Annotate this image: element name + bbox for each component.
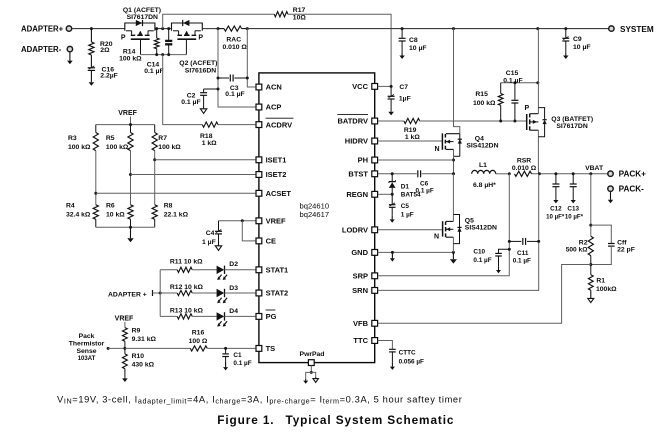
svg-text:P: P — [121, 34, 126, 41]
wire Q1-Q2 common source segment — [155, 28, 172, 30]
svg-text:SI7617DN: SI7617DN — [556, 123, 587, 130]
svg-text:R3: R3 — [68, 135, 77, 142]
resistor R11 — [160, 269, 177, 271]
pin ACN — [256, 84, 262, 90]
svg-text:TS: TS — [266, 344, 276, 353]
pin CE — [256, 238, 262, 244]
svg-text:PACK-: PACK- — [619, 185, 645, 194]
wire REGN — [378, 193, 393, 195]
wire ACN sense column — [247, 29, 255, 87]
pin VFB — [372, 320, 378, 326]
resistor R17 — [274, 12, 288, 17]
svg-text:100kΩ: 100kΩ — [596, 286, 617, 293]
svg-text:SRN: SRN — [352, 286, 368, 295]
capacitor C16 — [90, 55, 92, 67]
svg-text:C7: C7 — [399, 84, 408, 91]
svg-text:bq24610: bq24610 — [300, 201, 330, 210]
capacitor C14 — [168, 29, 170, 40]
ground below C1 — [225, 362, 227, 367]
svg-text:R9: R9 — [132, 327, 141, 334]
wire Q3 drain to PACK+ rail — [537, 130, 539, 174]
capacitor C3 — [218, 77, 229, 79]
wire VFB — [378, 265, 591, 324]
pin LODRV — [372, 227, 378, 233]
wire R15/C15 top rail — [501, 82, 538, 84]
LED D2 — [217, 266, 225, 274]
svg-text:0.010 Ω: 0.010 Ω — [512, 165, 537, 172]
capacitor C1 — [224, 347, 227, 350]
svg-text:R12 10 kΩ: R12 10 kΩ — [170, 284, 204, 291]
svg-text:SIS412DN: SIS412DN — [466, 143, 498, 150]
ground below C2 — [203, 107, 205, 109]
ground PwrPad left (signal) — [306, 372, 312, 378]
svg-text:Q2 (ACFET): Q2 (ACFET) — [179, 60, 217, 67]
svg-text:103AT: 103AT — [78, 356, 96, 362]
wire ISET2 — [130, 151, 132, 205]
svg-text:D2: D2 — [229, 261, 238, 268]
pin PG — [256, 314, 262, 320]
svg-text:Q4: Q4 — [475, 136, 484, 143]
svg-text:ISET2: ISET2 — [266, 170, 287, 179]
wire SRN — [378, 174, 539, 291]
pin STAT2 — [256, 290, 262, 296]
ground below C5 — [391, 216, 393, 220]
ground at Q5 source — [452, 252, 454, 259]
resistor R12 — [160, 292, 177, 294]
capacitor Cff — [591, 225, 612, 243]
capacitor C15 — [514, 83, 516, 100]
pin PH — [372, 157, 378, 163]
wire Q4 drain jog from system rail — [454, 29, 460, 134]
wire VCC to C7 — [378, 85, 392, 87]
ground PwrPad right (power) — [311, 372, 315, 377]
svg-text:HIDRV: HIDRV — [345, 137, 368, 146]
svg-text:PACK+: PACK+ — [619, 170, 647, 179]
svg-text:VBAT: VBAT — [585, 165, 604, 172]
svg-text:P: P — [525, 105, 530, 112]
diode Q5 body diode — [453, 215, 459, 244]
svg-text:D4: D4 — [229, 308, 238, 315]
svg-text:LODRV: LODRV — [342, 226, 368, 235]
svg-text:D3: D3 — [229, 285, 238, 292]
capacitor C5 — [391, 194, 393, 204]
resistor R19 — [378, 120, 404, 122]
svg-text:R11 10 kΩ: R11 10 kΩ — [170, 259, 203, 266]
svg-text:32.4 kΩ: 32.4 kΩ — [66, 211, 91, 218]
svg-text:SI7617DN: SI7617DN — [127, 14, 158, 21]
svg-text:0.1 µF: 0.1 µF — [473, 257, 491, 264]
capacitor CTTC — [389, 348, 396, 350]
svg-text:SRP: SRP — [353, 272, 368, 281]
svg-text:C10: C10 — [473, 249, 485, 256]
resistor R1 — [590, 265, 592, 275]
svg-text:22.1 kΩ: 22.1 kΩ — [164, 211, 189, 218]
ground below divider — [130, 227, 132, 238]
ground below ADAPTER- — [69, 52, 71, 61]
resistor R15 — [500, 83, 502, 94]
svg-text:R10: R10 — [132, 353, 145, 360]
svg-text:ISET1: ISET1 — [266, 156, 287, 165]
ground below C4 — [218, 242, 220, 246]
svg-text:C12: C12 — [550, 206, 562, 213]
wire Q1/Q2 gate rail — [141, 54, 187, 56]
ground arrow below C8 — [401, 52, 403, 55]
pin TTC — [372, 338, 378, 344]
svg-text:BTST: BTST — [348, 170, 368, 179]
wire system rail RAC to SYSTEM terminal — [247, 28, 608, 30]
ground below C10 — [498, 267, 500, 270]
resistor R4 — [93, 205, 98, 220]
ground below C16 — [90, 81, 92, 84]
resistor RSR — [515, 171, 532, 176]
svg-text:ACN: ACN — [266, 83, 282, 92]
svg-text:R1: R1 — [596, 278, 605, 285]
svg-text:BAT54: BAT54 — [401, 192, 421, 199]
capacitor C10 — [499, 249, 510, 253]
capacitor C9 — [565, 29, 567, 38]
capacitor C6 — [417, 170, 419, 177]
resistor R8 — [152, 205, 157, 220]
svg-text:Figure 1. Typical System Sche: Figure 1. Typical System Schematic — [217, 413, 454, 427]
capacitor C8 — [401, 29, 403, 38]
svg-text:VFB: VFB — [353, 319, 369, 328]
svg-text:N: N — [435, 146, 440, 153]
svg-text:10 µF*: 10 µF* — [565, 213, 584, 220]
capacitor C13 — [572, 174, 574, 184]
terminal PACK+ — [608, 171, 613, 176]
svg-text:1 µF: 1 µF — [202, 239, 216, 246]
svg-text:C15: C15 — [506, 70, 519, 77]
svg-text:9.31 kΩ: 9.31 kΩ — [132, 336, 157, 343]
node RAC right — [246, 27, 249, 30]
svg-text:PH: PH — [358, 156, 368, 165]
svg-text:0.010 Ω: 0.010 Ω — [223, 44, 248, 51]
svg-text:Pack: Pack — [79, 333, 95, 340]
svg-text:Sense: Sense — [76, 348, 96, 355]
svg-text:VCC: VCC — [352, 82, 368, 91]
ground arrow below C9 — [565, 52, 567, 55]
svg-text:RSR: RSR — [517, 158, 531, 165]
svg-text:VREF: VREF — [118, 110, 137, 117]
pin VCC — [372, 84, 378, 90]
svg-text:VREF: VREF — [115, 316, 134, 323]
svg-text:SI7616DN: SI7616DN — [185, 68, 216, 75]
capacitor C11 — [509, 240, 521, 242]
svg-text:C13: C13 — [567, 206, 579, 213]
svg-text:ADAPTER+: ADAPTER+ — [21, 25, 64, 34]
pin BTST — [372, 171, 378, 177]
wire R17 to VCC — [288, 14, 391, 86]
svg-text:2Ω: 2Ω — [100, 47, 110, 54]
svg-text:R19: R19 — [404, 127, 417, 134]
svg-text:STAT2: STAT2 — [266, 289, 289, 298]
svg-text:bq24617: bq24617 — [300, 210, 330, 219]
wire LED bus — [159, 270, 161, 317]
svg-text:SYSTEM: SYSTEM — [620, 25, 654, 34]
wire Q3 source to system rail — [537, 29, 539, 114]
node R2/R1/VFB — [589, 263, 592, 266]
svg-text:STAT1: STAT1 — [266, 266, 289, 275]
svg-text:ADAPTER-: ADAPTER- — [21, 45, 62, 54]
svg-text:BATDRV: BATDRV — [337, 117, 368, 126]
svg-text:ACDRV: ACDRV — [266, 120, 293, 129]
ground below PACK- — [610, 192, 612, 200]
svg-text:R7: R7 — [158, 135, 167, 142]
ground below R1 — [590, 290, 592, 298]
svg-text:100 kΩ: 100 kΩ — [68, 144, 91, 151]
terminal SYSTEM — [609, 26, 614, 31]
pin ISET1 — [256, 157, 262, 163]
svg-text:RAC: RAC — [226, 37, 241, 44]
svg-text:Cff: Cff — [617, 239, 627, 246]
svg-text:N: N — [434, 234, 439, 241]
wire Q5 source to GND rail — [452, 237, 454, 252]
ground below C7 — [390, 110, 392, 112]
wire BATDRV to Q3 gate — [420, 120, 527, 122]
ground below R10 — [124, 377, 126, 378]
svg-text:ADAPTER +: ADAPTER + — [108, 292, 147, 299]
resistor R16 — [125, 347, 190, 349]
svg-text:ACSET: ACSET — [266, 189, 292, 198]
svg-text:R15: R15 — [475, 91, 488, 98]
wire LODRV to Q5 gate — [378, 229, 443, 231]
wire VREF divider top rail — [96, 124, 155, 126]
resistor R2 — [588, 236, 593, 255]
svg-text:R2: R2 — [579, 239, 588, 246]
wire PwrPad stub — [310, 366, 312, 373]
svg-text:PG: PG — [266, 312, 277, 321]
svg-text:0.1 µF: 0.1 µF — [503, 77, 522, 84]
svg-text:1 µF: 1 µF — [401, 212, 414, 219]
wire ISET1 — [154, 151, 156, 205]
resistor R10 — [123, 354, 128, 369]
wire to R17 — [163, 14, 275, 28]
transistor Q3 body/arrow — [530, 121, 538, 123]
svg-text:1 kΩ: 1 kΩ — [405, 134, 420, 141]
svg-text:0.1 µF: 0.1 µF — [233, 360, 251, 367]
pin ACDRV — [256, 122, 262, 128]
svg-text:VREF: VREF — [266, 217, 286, 226]
terminal PACK- — [608, 186, 613, 191]
resistor R3 — [95, 125, 97, 133]
resistor R13 — [160, 315, 177, 317]
svg-text:100 kΩ: 100 kΩ — [158, 144, 181, 151]
wire divider bottom rail — [96, 226, 155, 228]
svg-text:10 µF: 10 µF — [573, 44, 591, 51]
resistor R6 — [128, 205, 133, 220]
svg-text:R13 10 kΩ: R13 10 kΩ — [170, 308, 204, 315]
svg-text:CTTC: CTTC — [399, 350, 416, 357]
svg-text:0.1 µF: 0.1 µF — [181, 99, 200, 106]
resistor R20 — [90, 29, 92, 42]
node pack thermistor sense — [107, 347, 110, 350]
wire GND rail — [378, 251, 454, 253]
svg-text:TTC: TTC — [353, 336, 368, 345]
wire ACP sense column — [218, 29, 255, 107]
wire BTST — [378, 173, 417, 175]
diode Q3 body diode — [538, 108, 544, 120]
wire R18 to ACDRV pin — [218, 124, 255, 126]
inductor L1 — [472, 170, 496, 173]
svg-text:C5: C5 — [401, 203, 410, 210]
pin ACP — [256, 104, 262, 110]
wire TTC — [378, 341, 393, 349]
wire HIDRV to Q4 gate — [378, 140, 443, 142]
wire ACSET — [95, 151, 97, 205]
svg-text:R17: R17 — [293, 7, 306, 14]
svg-text:R4: R4 — [66, 203, 75, 210]
wire Q2 to RAC — [202, 28, 218, 30]
svg-text:D1: D1 — [401, 184, 410, 191]
svg-text:100 kΩ: 100 kΩ — [473, 100, 496, 107]
svg-text:0.1 µF: 0.1 µF — [513, 258, 531, 265]
svg-text:0.056 µF: 0.056 µF — [399, 358, 424, 365]
svg-text:10 µF: 10 µF — [409, 45, 427, 52]
LED D4 — [217, 312, 225, 320]
wire CE tie to VREF — [242, 221, 255, 241]
svg-text:10 kΩ: 10 kΩ — [106, 211, 125, 218]
pin PwrPad — [308, 360, 314, 366]
svg-text:2.2µF: 2.2µF — [100, 73, 118, 80]
svg-text:500 kΩ: 500 kΩ — [566, 247, 589, 254]
pin SRN — [372, 288, 378, 294]
pin SRP — [372, 273, 378, 279]
wire VREF pin net — [219, 220, 256, 222]
svg-text:SIS412DN: SIS412DN — [465, 224, 497, 231]
capacitor C2 — [204, 88, 218, 90]
svg-text:6.8 µH*: 6.8 µH* — [473, 182, 496, 189]
pin HIDRV — [372, 138, 378, 144]
pin ISET2 — [256, 172, 262, 178]
ground below CTTC — [391, 363, 393, 367]
svg-text:R16: R16 — [192, 330, 205, 337]
wire SRP — [378, 174, 510, 276]
svg-text:R8: R8 — [164, 203, 173, 210]
resistor R5 — [130, 125, 132, 133]
svg-text:P: P — [198, 34, 203, 41]
pin BATDRV — [372, 118, 378, 124]
pin TS — [256, 346, 262, 352]
resistor R14 — [156, 29, 158, 38]
pin ACSET — [256, 190, 262, 196]
resistor R9 — [123, 328, 128, 342]
pin GND — [372, 250, 378, 256]
svg-text:PwrPad: PwrPad — [300, 351, 325, 358]
resistor RAC — [224, 26, 242, 31]
svg-text:CE: CE — [266, 237, 276, 246]
svg-text:C11: C11 — [517, 250, 529, 257]
svg-text:1 kΩ: 1 kΩ — [202, 140, 217, 147]
svg-text:C4: C4 — [206, 230, 215, 237]
svg-text:Q5: Q5 — [465, 217, 474, 224]
svg-text:R18: R18 — [200, 133, 213, 140]
svg-text:10Ω: 10Ω — [293, 14, 307, 21]
pin REGN — [372, 191, 378, 197]
wire ADAPTER+ rail to Q1 — [72, 28, 125, 30]
ground at GND pin — [391, 252, 393, 258]
svg-text:C9: C9 — [573, 36, 582, 43]
wire Q4 source to PH node — [453, 149, 455, 173]
svg-text:C8: C8 — [409, 37, 418, 44]
svg-text:L1: L1 — [479, 162, 487, 169]
resistor R18 — [202, 122, 218, 127]
svg-text:REGN: REGN — [346, 190, 368, 199]
diode D1 BAT54 — [391, 174, 393, 181]
wire Q5 drain to switch node — [452, 174, 454, 222]
capacitor C4 — [218, 221, 220, 231]
svg-text:Thermistor: Thermistor — [69, 340, 105, 347]
pin VREF — [256, 218, 262, 224]
diode Q4 body diode — [459, 134, 461, 157]
capacitor C12 — [555, 174, 557, 184]
svg-text:C6: C6 — [420, 180, 429, 187]
svg-text:10 µF*: 10 µF* — [546, 213, 565, 220]
wire PH — [378, 159, 454, 161]
svg-text:0.1 µF: 0.1 µF — [225, 91, 244, 98]
svg-text:GND: GND — [351, 248, 368, 257]
svg-text:ACP: ACP — [266, 103, 282, 112]
svg-text:VIN=19V, 3-cell, Iadapter_limi: VIN=19V, 3-cell, Iadapter_limit=4A, Icha… — [57, 394, 462, 405]
LED D3 — [217, 289, 225, 297]
wire gate line to ACDRV — [163, 55, 203, 125]
capacitor C7 — [390, 86, 392, 95]
IC U1 bq24610/bq24617 body — [259, 73, 375, 363]
svg-text:100 Ω: 100 Ω — [189, 338, 208, 345]
wire PACK+ to R2 — [590, 174, 592, 237]
svg-text:22 pF: 22 pF — [617, 247, 635, 254]
svg-text:C1: C1 — [233, 352, 242, 359]
svg-text:R6: R6 — [106, 203, 115, 210]
svg-text:100 kΩ: 100 kΩ — [119, 55, 142, 62]
svg-text:100 kΩ: 100 kΩ — [106, 144, 129, 151]
node ADAPTER+/R20 junction — [90, 27, 93, 30]
svg-text:0.1 µF: 0.1 µF — [144, 68, 163, 75]
svg-text:430 kΩ: 430 kΩ — [132, 362, 155, 369]
resistor R7 — [154, 125, 156, 133]
pin STAT1 — [256, 267, 262, 273]
svg-text:R5: R5 — [106, 135, 115, 142]
svg-text:1µF: 1µF — [399, 96, 411, 103]
